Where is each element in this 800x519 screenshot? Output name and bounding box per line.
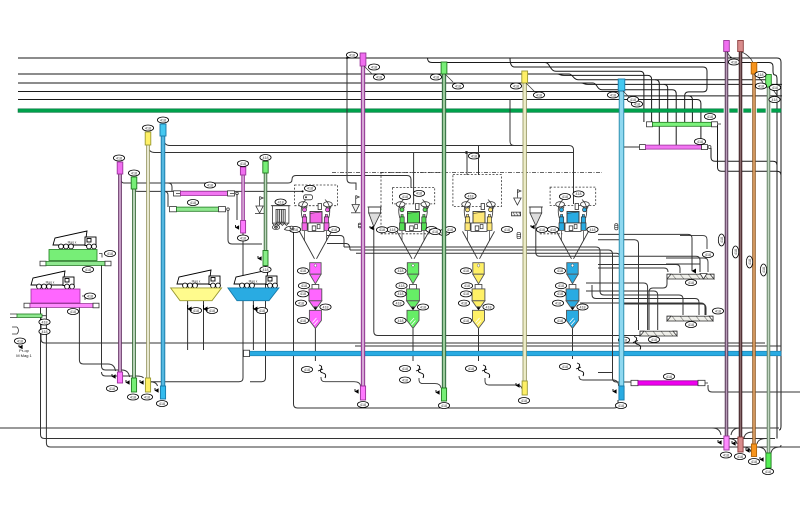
wire from green conveyor right end down <box>228 211 262 244</box>
wire curl orange tip left <box>742 447 751 452</box>
wire bin3 to cyan line <box>478 328 480 361</box>
wire curl purple tip right <box>731 428 740 435</box>
wire curl L4 tip <box>150 382 158 386</box>
wire bin2 to cyan line <box>412 328 414 361</box>
chute symbol right unit3 <box>511 190 521 216</box>
mixer/scale unit1 <box>271 206 294 231</box>
wire feed unit2 <box>413 153 415 205</box>
wire feeder y376 to L3 tip <box>102 372 144 378</box>
conveyor truck2 <box>24 303 30 308</box>
wire drop3 <box>569 74 766 80</box>
diverter under conveyor 626 <box>633 337 641 350</box>
wire y152.5 from elevator L3 <box>148 145 574 153</box>
wire drop4 <box>581 83 782 84</box>
capsule right unit4 <box>615 224 618 230</box>
wire y438.5 long <box>41 307 776 439</box>
wire bus3 y83 <box>18 82 593 84</box>
dashed box unit3 <box>453 175 502 207</box>
wire y256 to bar1 right <box>536 227 700 273</box>
wire y191.4 from elevator L2 to unit1 valve <box>134 189 303 191</box>
truck T3 <box>177 270 220 288</box>
wire into magenta conveyor <box>168 183 172 191</box>
wire feed unit3b <box>478 146 480 176</box>
bin chain unit3 <box>472 263 485 329</box>
wire drop1 <box>545 63 644 123</box>
wire M2 down to y381.7 <box>250 266 266 382</box>
wire trapezoid drop 2 <box>203 301 205 350</box>
capsule right unit1 <box>358 223 361 228</box>
wire y346 long <box>355 345 781 347</box>
wire from magenta conveyor right end down <box>236 195 238 220</box>
wire diverter3 to yellow bar tip <box>485 378 522 389</box>
conveyor small left green <box>17 314 42 317</box>
wire bar1 left end to bar3 <box>649 279 667 330</box>
wire blue y291 <box>586 291 658 330</box>
svg-text:M Mag 1: M Mag 1 <box>16 353 32 358</box>
dashed box unit2 <box>393 187 435 204</box>
chute symbol left unit1 <box>255 197 264 214</box>
diverter unit3 <box>482 365 490 378</box>
wire unit1 step b <box>327 244 350 251</box>
bin chain unit4 <box>566 263 579 329</box>
truck T1 <box>53 231 96 249</box>
wire diverter1 to violet tip <box>321 377 361 386</box>
wire bus1b y62.5 branch <box>428 58 778 439</box>
wire diverter2 to green bar tip <box>419 378 441 388</box>
wire into table <box>680 236 707 249</box>
wire from magenta conveyor right end <box>708 385 800 392</box>
chute symbol right unit1 <box>351 196 360 213</box>
wire cyan bar to conveyor147 <box>624 146 640 148</box>
wire y408 packing line <box>294 230 619 408</box>
wire trapezoid drop 1 <box>187 301 189 350</box>
wire drop5 <box>593 83 676 145</box>
wire y428 long <box>0 427 779 429</box>
bin chain unit2 <box>407 263 420 329</box>
wire feeder y370 to L2 tip <box>102 265 130 377</box>
wire trapezoid drop 3 <box>252 301 254 350</box>
wire diverter4 to cyan bar tip <box>579 376 619 386</box>
wire right corner group <box>598 268 668 272</box>
pipe main cyan <box>249 351 781 356</box>
conveyor truck1 <box>40 261 46 266</box>
bin chain unit1 <box>309 263 322 329</box>
outer dashed box unit2 <box>381 173 443 234</box>
wire y343 long <box>41 317 765 343</box>
node o-left <box>12 327 19 334</box>
dosing unit U3 <box>462 200 496 259</box>
diverter unit1 <box>318 365 326 378</box>
capsule right unit3 <box>517 232 521 238</box>
wire curl maroon tip left <box>728 439 737 445</box>
receiving hopper yellow <box>171 288 222 301</box>
dosing unit U2 <box>396 200 430 259</box>
wire blue y283 <box>586 283 648 330</box>
wire unit1 step a <box>327 236 344 248</box>
truck T4 <box>234 270 277 288</box>
platform magenta <box>31 289 80 303</box>
wire into magenta conveyor left <box>598 372 613 374</box>
wire drop x510 to y145.5 <box>510 100 514 146</box>
wire y175.5 unit1-unit2 link <box>292 176 411 189</box>
valve box unit1 <box>304 195 313 200</box>
wire bus2 y74 <box>18 73 569 75</box>
wire curl green tip left <box>757 447 766 453</box>
wire curl maroon tip right <box>744 432 753 438</box>
wire mid y250 <box>350 250 631 382</box>
wire funnel2 drop to bar3 <box>374 228 640 336</box>
wire into green conveyor <box>164 191 168 207</box>
wire y264 to bar1 <box>598 265 680 274</box>
truck T2 <box>31 271 74 289</box>
wire bus1 y58 <box>18 58 781 430</box>
wire drop2 <box>557 74 652 122</box>
platform green <box>49 250 97 261</box>
wire y447 long <box>46 307 781 448</box>
wire bin4 to cyan line <box>572 328 574 359</box>
wire feed unit3a <box>466 153 468 176</box>
wire drop6 <box>617 92 782 96</box>
wire y146 from elevator L4 <box>163 136 574 204</box>
wire y298.5 to bar2 <box>592 285 699 315</box>
intake funnel unit4 <box>529 207 543 226</box>
wire feeder y364 to L1 tip <box>79 307 115 372</box>
wire bus1c y67 branch <box>510 58 707 122</box>
dosing unit U4 <box>556 200 590 259</box>
dashed box unit1 <box>295 185 338 206</box>
dashed segment unit4 bottom <box>540 233 563 235</box>
wire conveyor148 discharge <box>718 125 782 175</box>
intake funnel unit2 <box>368 207 382 227</box>
wire y381.7 from M1 <box>150 233 243 382</box>
dashed box unit4 <box>550 187 596 205</box>
wire conveyor147 discharge <box>711 148 777 165</box>
wire mid y253.3 <box>356 253 706 315</box>
wire mid y247 <box>344 247 683 315</box>
wires to mid conveyors <box>164 183 262 244</box>
white gaps at right elevator crossings <box>724 108 730 113</box>
wire y240 to bar3 <box>598 240 639 330</box>
wire bus5 y99.5 <box>18 100 701 146</box>
wire blue unit y303 <box>580 303 705 315</box>
wire bus4 y91.5 <box>18 91 617 93</box>
labels top right cluster <box>756 74 763 82</box>
receiving hopper blue <box>228 288 279 301</box>
wire curl purple tip left <box>712 428 721 435</box>
wire bin1 to cyan line <box>314 328 316 361</box>
wire curl green tip right <box>771 447 800 453</box>
diverter unit4 <box>576 363 584 376</box>
wire y183 from elevator L1 to y175.5 link <box>120 174 292 183</box>
diverter unit2 <box>416 365 424 378</box>
wire curl orange tip right <box>757 439 766 445</box>
dash-dot boundary line <box>332 172 602 174</box>
dosing unit U1 <box>299 200 333 259</box>
wire vert x347 from bus1 <box>347 58 356 190</box>
pipe main green <box>18 109 781 113</box>
wire y234 to bar1 <box>598 234 692 271</box>
